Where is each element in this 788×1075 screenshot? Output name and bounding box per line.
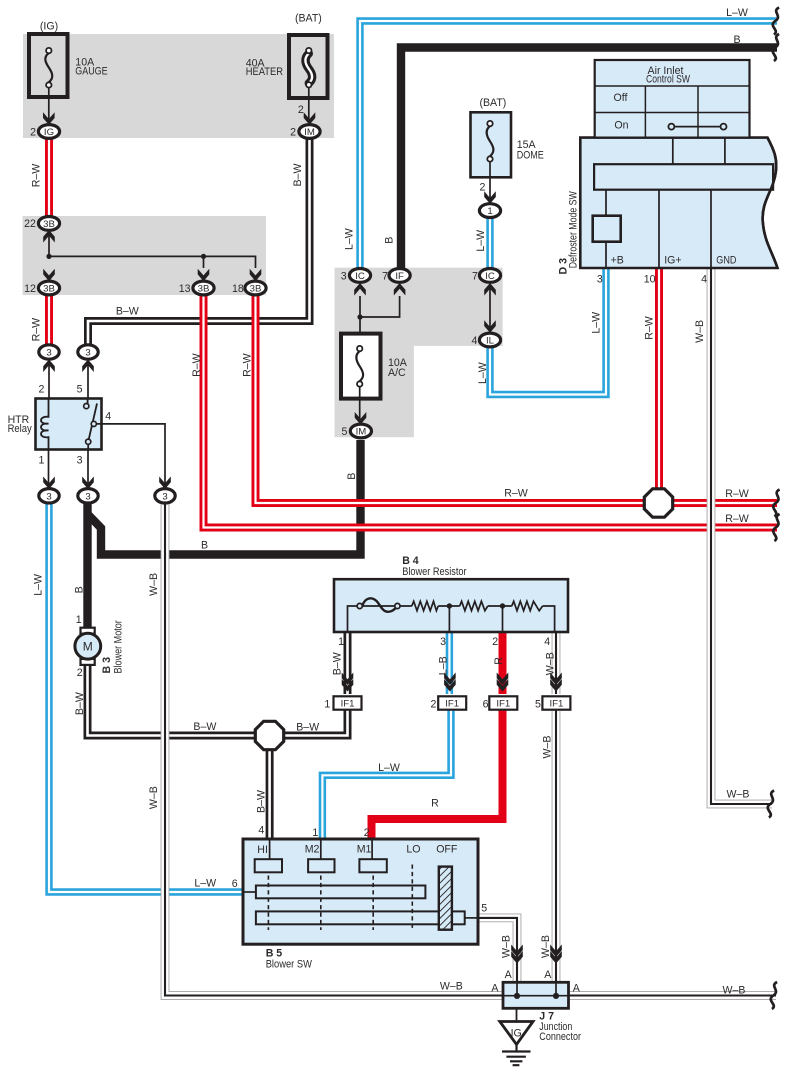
svg-text:W–B: W–B [148,573,160,596]
wire L-W: top right horizontal to break [360,21,777,268]
svg-text:18: 18 [232,283,244,295]
svg-text:+B: +B [611,255,624,267]
connector oval 3 (below pin1) [39,489,59,503]
node line from 3-IC and 7-IF to A/C fuse [359,296,361,333]
arrow down into 18-3B oval [250,269,262,282]
svg-text:3B: 3B [198,283,210,294]
fuse 10A GAUGE symbol [45,53,52,82]
svg-text:B: B [74,586,86,593]
svg-text:4: 4 [544,636,550,648]
connector oval 2-IM [299,125,320,139]
svg-text:M1: M1 [357,843,372,855]
svg-text:OFF: OFF [436,843,458,855]
wire R: B4 pin2 to IF1-6 connector [499,632,507,694]
arrow into 5-IM oval [355,412,367,425]
svg-text:B–W: B–W [256,790,268,813]
wire fuse HEATER to IM oval [308,88,310,123]
B4 resistor 3 [512,601,543,610]
svg-text:3: 3 [46,491,51,502]
connector oval 7-IF [389,269,410,283]
junction dot [46,254,51,259]
B5 OFF hatched bar [439,867,452,930]
svg-text:4: 4 [471,335,477,347]
break R-W lower bus [773,514,779,541]
HTR relay box [36,399,102,450]
svg-text:Relay: Relay [8,423,33,435]
svg-text:3: 3 [85,491,90,502]
connector oval 3 (relay pin2 top) [39,345,59,359]
J7 junction dot right [553,993,559,999]
wire B thick: top right horizontal to break [401,48,777,270]
fuse 40A HEATER box [289,35,328,98]
B5 dashed selector lines [267,876,269,931]
svg-text:3B: 3B [250,283,262,294]
connector oval 3 (below pin4) [155,489,175,503]
B5 entry lines to contacts [270,839,373,859]
wire R-W: 18-3B oval down, upper bus to break [256,294,778,503]
connector 5 IF1 [542,696,570,709]
connector oval 4-IL [479,333,500,347]
wire B-W: octagon junction down to blower SW pin 4 [266,736,274,841]
D3 small square on +B line [593,216,621,242]
svg-text:B: B [346,473,358,480]
svg-text:2: 2 [479,181,485,193]
svg-text:1: 1 [324,699,330,711]
svg-text:IM: IM [356,426,367,437]
wire R: IF1-6 down, left, to blower SW pin 2 [372,709,503,840]
svg-text:IF1: IF1 [341,699,355,710]
connector 2 IF1 [438,696,466,709]
motor bottom terminal [81,659,95,665]
svg-text:IL: IL [486,335,495,346]
svg-text:L–B: L–B [438,656,450,675]
svg-text:W–B: W–B [694,320,706,343]
svg-text:3: 3 [46,348,51,359]
connector oval 5-IM [350,424,371,438]
svg-text:GND: GND [716,255,736,267]
svg-text:A: A [544,969,552,981]
svg-text:R–W: R–W [725,513,749,525]
arrow into IM oval [304,112,316,125]
arrows into IF1-5 [550,673,562,686]
motor top terminal [81,628,95,634]
svg-text:(IG): (IG) [40,21,58,33]
arrow down into 13-3B oval [198,269,210,282]
ground symbol [502,1045,531,1066]
svg-text:L–W: L–W [591,312,603,334]
B5 slider bar 2 [256,911,465,924]
wire L-W: relay pin1 oval down to blower SW pin 6 [49,501,243,892]
svg-text:7: 7 [382,270,388,282]
svg-text:1: 1 [487,206,492,217]
connector oval 3 (below pin3) [78,489,98,503]
relay coil [41,399,49,450]
fuse 15A DOME box [471,112,512,177]
svg-text:4: 4 [701,273,707,285]
svg-text:R–W: R–W [725,488,749,500]
arrow up into 7-IF oval [394,283,406,296]
svg-text:W–B: W–B [540,935,552,958]
svg-text:Connector: Connector [539,1031,581,1043]
svg-text:Blower SW: Blower SW [266,959,312,971]
svg-text:W–B: W–B [545,652,557,675]
wire R-W: 12-3B oval down to relay oval 3 [45,294,53,347]
arrow up into 22-3B oval [43,230,55,243]
wire A/C fuse to 5-IM oval [359,387,361,423]
svg-text:3: 3 [597,273,603,285]
wire R-W: D3 IG+ pin down to octagon junction [655,267,663,503]
svg-text:3: 3 [77,455,83,467]
arrows into J7 right pin [550,945,562,958]
svg-text:10: 10 [644,273,656,285]
svg-text:R–W: R–W [644,316,656,340]
svg-text:5: 5 [481,902,487,914]
B5 slider bar 1 [243,891,256,893]
J7 box [503,982,569,1008]
connector oval 22-3B [38,217,59,231]
wire W-B: IF1-5 connector down to J7 right pin [552,709,561,983]
svg-text:4: 4 [258,825,264,837]
wire L-W: IF1-2 connector down, left, to blower SW pin 1 [322,709,451,840]
svg-text:L–W: L–W [344,228,356,250]
svg-text:2: 2 [290,127,296,139]
svg-text:1: 1 [312,827,318,839]
svg-text:A/C: A/C [388,367,406,379]
D3 pin lines [606,190,711,267]
ground triangle IG [500,1022,533,1045]
svg-text:B–W: B–W [116,306,139,318]
arrows into IF1-6 [497,673,509,686]
arrow into oval 1 [484,191,496,204]
wire relay pin4 right and down to oval [102,424,166,488]
arrow into IG oval [43,112,55,125]
connector oval 2-IG [38,125,59,139]
junction dot [357,314,362,319]
svg-text:L–W: L–W [477,362,489,384]
B4 resistor 2 [460,601,488,610]
gray region: top-left fuse block (IG / BAT fuses) [23,34,334,138]
connector oval 7-IC [479,269,500,283]
svg-text:IF1: IF1 [445,699,459,710]
wire oval3 to relay pin5 [87,359,89,399]
connector oval 3 (relay pin5 top) [78,345,98,359]
svg-text:IG: IG [511,1028,522,1040]
svg-text:Control SW: Control SW [646,74,690,86]
svg-text:B: B [733,34,740,46]
B4 thermal fuse wave [362,598,397,611]
connector oval 1 [479,204,500,218]
gray region: 3B junction block [23,216,267,295]
svg-text:M2: M2 [305,843,320,855]
wire oval3 to relay pin2 [48,359,50,399]
J7 internal bus line [503,982,569,995]
fuse 10A A/C symbol [356,351,363,381]
svg-text:IG: IG [44,127,54,138]
svg-text:Off: Off [614,92,628,104]
svg-text:B 4: B 4 [402,555,419,567]
break W-B right [768,791,774,818]
svg-text:L–W: L–W [378,762,400,774]
svg-text:5: 5 [77,384,83,396]
wire L-W: DOME oval 1 down to 7-IC oval [486,216,493,269]
D3 box body with torn right edge [580,138,777,268]
svg-text:On: On [614,120,628,132]
svg-text:L–W: L–W [194,878,216,890]
wire W-B: D3 GND pin down, right to break [711,267,772,804]
svg-text:B–W: B–W [193,721,216,733]
svg-text:IF: IF [395,271,404,282]
wire W-B: B4 pin4 to IF1-5 connector [552,632,561,694]
arrow up into relay oval 3 (right) [82,360,94,373]
svg-text:B–W: B–W [296,722,319,734]
svg-text:A: A [491,982,499,994]
svg-text:5: 5 [535,699,541,711]
arrow into oval 3 (pin3) [82,477,94,490]
break B top [773,34,779,61]
svg-text:B: B [384,237,396,244]
svg-text:R–W: R–W [30,318,42,342]
svg-text:DOME: DOME [517,150,544,162]
svg-text:W–B: W–B [501,935,513,958]
B5 contact pad M1 [359,859,386,872]
svg-text:2: 2 [38,384,44,396]
wire B-W: B4 pin1 to IF1-1 connector [344,632,352,694]
svg-text:R: R [431,798,439,810]
AIC switch contact symbol [675,126,721,128]
B4 junction dot pin2 [502,606,504,632]
connector 1 IF1 [334,696,362,709]
svg-text:W–B: W–B [727,788,750,800]
svg-text:3: 3 [162,491,167,502]
fuse 40A HEATER symbol (thick) [305,54,312,84]
arrows into IF1-1 [342,673,354,686]
wire W-B: bottom bus right of J7 to break [568,991,777,1000]
svg-text:W–B: W–B [440,981,463,993]
svg-text:R–W: R–W [504,488,528,500]
connector oval 18-3B [245,281,266,295]
arrow into oval 3 (pin1) [43,477,55,490]
wire R-W: IG oval down to 22-3B oval [45,137,53,218]
svg-text:4: 4 [105,410,111,422]
fuse 10A A/C box [341,334,381,399]
wire L-B: B4 pin3 to IF1-2 connector [446,632,453,694]
svg-text:LO: LO [406,843,420,855]
gray region: A/C fuse block (L-shape lower) [335,346,414,437]
wire B: relay pin3 oval down to blower motor [83,501,91,629]
AIC row/column dividers [595,86,750,138]
svg-text:Blower Motor: Blower Motor [113,620,125,674]
svg-text:W–B: W–B [542,736,554,759]
D3 torn edge redraw [763,138,778,268]
svg-text:GAUGE: GAUGE [75,65,107,77]
svg-text:12: 12 [24,283,36,295]
svg-text:W–B: W–B [148,786,160,809]
svg-text:IM: IM [304,127,315,138]
svg-text:B 3: B 3 [101,657,113,674]
svg-text:A: A [573,982,581,994]
fuse 10A GAUGE box [29,34,68,97]
wire relay pin1 down to oval [48,450,50,489]
arrow up into 3-IC oval [354,283,366,296]
B5 pin5 line [465,917,478,919]
D3 top cell dividers [673,138,725,165]
svg-text:3: 3 [85,348,90,359]
svg-text:IF1: IF1 [496,699,510,710]
svg-text:22: 22 [24,218,36,230]
svg-text:W–B: W–B [723,984,746,996]
connector oval 13-3B [193,281,214,295]
wire W-B: blower SW pin5 right, down to J7 left pin [478,918,517,983]
B5 contact pad M2 [308,859,334,872]
node line between 7-IC and 4-IL ovals [489,284,491,330]
svg-text:2: 2 [492,636,498,648]
svg-text:A: A [505,969,513,981]
B5 box [243,839,478,944]
svg-text:3: 3 [440,636,446,648]
break R-W upper bus [773,490,779,517]
svg-text:1: 1 [338,636,344,648]
svg-text:1: 1 [76,614,82,626]
relay switch blade [88,399,102,450]
wire L-W: 4-IL oval down, right, up to D3 +B pin [490,267,606,395]
svg-text:Defroster Mode SW: Defroster Mode SW [568,191,580,268]
arrow up into relay oval 3 (left) [43,360,55,373]
fuse 15A DOME symbol [487,126,494,156]
B4 resistor 1 [412,601,438,610]
Air Inlet Control SW box [595,60,750,138]
wire B-W: IM oval down, left, to relay pin5 oval [88,136,310,347]
svg-text:R–W: R–W [30,164,42,188]
wire B: from IM fuse oval down, left along y=554.5, branch to blower motor [88,440,361,555]
svg-text:3: 3 [341,270,347,282]
svg-text:IG+: IG+ [664,255,681,267]
svg-text:2: 2 [298,104,304,116]
break L-W top [773,8,779,35]
svg-text:13: 13 [179,283,191,295]
wire R-W: 13-3B oval down, lower bus to break [204,294,778,528]
gray region: A/C fuse block (L-shape upper) [335,268,503,346]
svg-text:R: R [493,657,505,665]
svg-text:7: 7 [472,270,478,282]
wire W-B: relay pin4 oval down, bottom bus to J7 and break [165,501,504,996]
connector oval 12-3B [38,281,59,295]
svg-text:2: 2 [364,827,370,839]
node bus line in 3B block [49,229,256,268]
junction dot [201,254,206,259]
svg-text:B–W: B–W [332,652,344,675]
wire fuse GAUGE to IG oval [48,88,50,122]
B5 contact pad HI [255,859,282,872]
octagon junction (R-W bus / IG+) [644,489,672,517]
wire DOME fuse to oval 1 [489,162,491,202]
J7 junction dot left [514,993,520,999]
svg-text:M: M [83,640,93,654]
svg-text:6: 6 [483,699,489,711]
svg-text:1: 1 [38,455,44,467]
wire J7 to ground triangle [516,1008,518,1021]
svg-text:L–W: L–W [33,574,45,596]
connector oval 3-IC [349,269,370,283]
D3 inner switch bar [594,164,773,190]
svg-text:IC: IC [355,271,365,282]
svg-text:Blower Resistor: Blower Resistor [402,566,467,578]
svg-text:2: 2 [430,699,436,711]
B4 box [334,579,568,632]
svg-text:IC: IC [485,271,495,282]
svg-text:HEATER: HEATER [246,66,284,78]
svg-text:5: 5 [341,426,347,438]
motor circle M [75,633,101,659]
svg-text:2: 2 [30,127,36,139]
arrows into J7 left pin [511,945,523,958]
arrows into IF1-2 [444,673,456,686]
wire B-W: blower motor to octagon junction to IF1-1 [88,663,348,736]
svg-text:B–W: B–W [292,164,304,187]
break W-B bottom bus [771,982,777,1009]
svg-text:3B: 3B [43,283,55,294]
svg-text:B: B [201,540,208,552]
B4 internal wire [348,606,555,632]
svg-text:6: 6 [232,878,238,890]
arrow into oval 3 (pin4) [159,477,171,490]
svg-text:(BAT): (BAT) [479,97,506,109]
svg-text:(BAT): (BAT) [295,12,322,24]
svg-text:2: 2 [77,667,83,679]
svg-text:R–W: R–W [191,353,203,377]
wire relay pin3 down to oval [87,450,89,489]
octagon junction (B-W bus) [255,721,283,749]
svg-text:IF1: IF1 [549,699,563,710]
svg-text:L–W: L–W [475,230,487,252]
connector 6 IF1 [489,696,517,709]
arrow down into 12-3B oval [43,269,55,282]
svg-text:L–W: L–W [726,7,748,19]
svg-text:R–W: R–W [242,353,254,377]
B4 junction dot pin3 [448,606,450,632]
svg-text:3B: 3B [43,219,55,230]
svg-text:B–W: B–W [74,692,86,715]
svg-text:HI: HI [257,844,268,856]
